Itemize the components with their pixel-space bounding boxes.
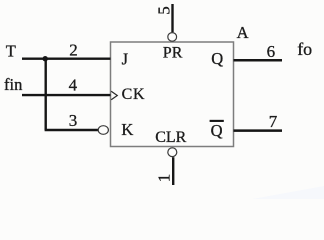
- wire pin1 CLR bottom: [172, 157, 174, 185]
- svg-text:2: 2: [69, 40, 78, 59]
- wire pin6 Q to fo: [234, 59, 283, 62]
- bubble CLR: [168, 148, 177, 157]
- svg-text:4: 4: [69, 76, 78, 95]
- wire pin2 T to J: [22, 58, 111, 60]
- svg-text:6: 6: [267, 42, 276, 61]
- wire pin7 Qbar: [234, 129, 283, 132]
- junction dot: [43, 56, 48, 61]
- svg-text:1: 1: [155, 174, 174, 183]
- svg-text:PR: PR: [163, 44, 183, 61]
- svg-text:fo: fo: [297, 39, 312, 59]
- svg-text:7: 7: [269, 112, 278, 131]
- bubble K input: [98, 126, 108, 135]
- svg-text:T: T: [6, 42, 16, 61]
- svg-text:CLR: CLR: [155, 129, 186, 146]
- svg-text:K: K: [121, 120, 133, 139]
- wire vertical T to K: [45, 59, 47, 130]
- svg-text:3: 3: [69, 111, 78, 130]
- svg-text:Q: Q: [211, 49, 223, 68]
- bubble PR: [168, 33, 177, 42]
- clock triangle: [111, 91, 117, 100]
- wire pin3 to K bubble: [45, 129, 98, 131]
- wire pin4 fin to CK: [22, 94, 111, 96]
- svg-text:CK: CK: [122, 86, 146, 103]
- svg-text:A: A: [237, 23, 249, 42]
- svg-text:5: 5: [155, 6, 174, 15]
- wire pin5 PR top: [171, 4, 173, 32]
- svg-text:Q: Q: [211, 121, 223, 140]
- svg-text:J: J: [122, 50, 129, 69]
- flip-flop body U1: [111, 42, 234, 147]
- Qbar overbar: [210, 120, 224, 122]
- svg-text:fin: fin: [4, 75, 22, 94]
